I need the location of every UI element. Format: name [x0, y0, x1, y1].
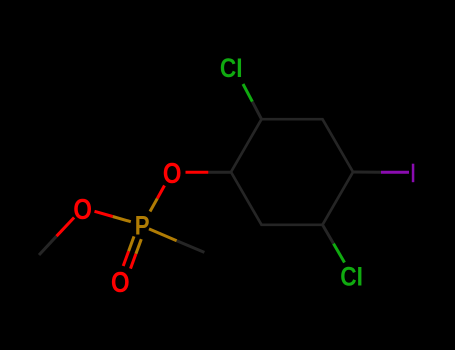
label I (iodine)	[412, 164, 415, 183]
bond P-CH3, phosphorus half	[149, 229, 177, 241]
bond C4-I, carbon half	[353, 171, 381, 174]
bond C1-O (aryl ester O), oxygen half	[186, 171, 209, 174]
svg-text:O: O	[73, 194, 92, 226]
bond P-O(methoxy), oxygen half	[95, 211, 113, 216]
bond O-CH3 (methoxy methyl), carbon half	[39, 236, 57, 255]
bond C2-Cl (top), chlorine half	[243, 84, 252, 102]
bond P-CH3, carbon half	[177, 241, 205, 253]
bond O-CH3 (methoxy methyl), oxygen half	[57, 218, 75, 237]
svg-text:O: O	[163, 158, 182, 190]
svg-text:CI: CI	[340, 262, 363, 292]
bond C5-Cl (bottom), chlorine half	[334, 244, 345, 263]
double bond P=O, line B oxygen half	[123, 251, 128, 266]
bond C4-I, iodine half	[381, 171, 409, 174]
bond C1-O (aryl ester O), carbon half	[208, 171, 231, 174]
bond C2-Cl (top), carbon half	[252, 102, 261, 120]
bond P-O(methoxy), phosphorus half	[113, 217, 131, 222]
double bond P=O, line B phosphorus half	[129, 236, 134, 251]
benzene ring C1-C6 (carbon bonds, very dark)	[231, 119, 353, 225]
svg-text:O: O	[111, 267, 130, 299]
bond C5-Cl (bottom), carbon half	[323, 225, 334, 244]
svg-text:CI: CI	[220, 53, 243, 83]
svg-text:P: P	[135, 211, 150, 241]
double bond P=O, line A phosphorus half	[136, 239, 141, 254]
double bond P=O, line A oxygen half	[131, 254, 136, 269]
bond P-O(aryl), phosphorus half	[150, 199, 157, 212]
bond P-O(aryl), oxygen half	[157, 186, 164, 199]
